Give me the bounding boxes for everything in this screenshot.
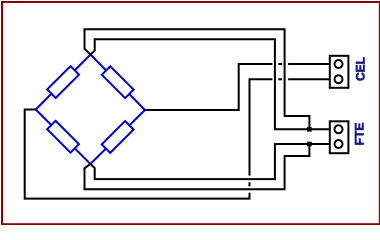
wire: top node inner lead to FTE pin1 (91, 39, 330, 129)
connector J2 pin 2 (335, 140, 343, 148)
wire: bottom node to right node (90, 110, 144, 164)
connector J2 pin 1 (335, 125, 343, 133)
wire: right node to CEL pin1 (with crossing gaps) (145, 64, 273, 110)
resistor R2 (top-right arm) (102, 66, 134, 98)
wire: CEL pin1 final segment (288, 63, 329, 65)
wire: vertical up to CEL pin2 level (250, 79, 273, 175)
wire: left node to bottom node (36, 110, 91, 164)
junction dot at FTE pin2 node (307, 142, 312, 147)
junction dot at FTE pin1 node (307, 127, 312, 132)
connector J1 pin 2 (335, 75, 343, 83)
wire: top node outer lead to FTE pin1 (via dogleg) (85, 29, 310, 129)
wire: left node down and along bottom to CEL pin2 (with crossing gaps) (25, 110, 250, 199)
wire segment between bottom crossings (249, 182, 251, 186)
connector J2 body (FTE) (330, 121, 349, 153)
wire: CEL pin2 final segment (288, 78, 329, 80)
wire: bottom node outer lead to FTE pin2 (via dogleg) (85, 144, 310, 189)
connector J1 body (CEL) (330, 56, 349, 88)
resistor R4 (bottom-right arm) (102, 121, 134, 153)
wire: top node to right node (91, 55, 145, 111)
wire: left node to top node (36, 55, 91, 110)
wire: bottom node inner lead to FTE pin2 (90, 144, 329, 179)
wire segment between crossings (CEL pin2) (278, 78, 282, 80)
connector J1 pin 1 (335, 60, 343, 68)
resistor R1 (top-left arm) (47, 66, 79, 98)
resistor R3 (bottom-left arm) (47, 121, 79, 153)
svg-text:CEL: CEL (354, 57, 368, 81)
svg-text:FTE: FTE (353, 123, 367, 146)
wire segment between crossings (CEL pin1) (278, 63, 282, 65)
